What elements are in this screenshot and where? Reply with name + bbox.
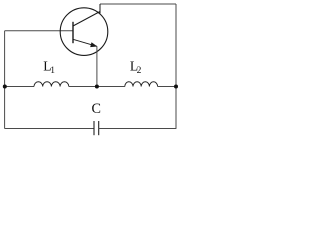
transistor (BJT, NPN) bbox=[60, 4, 108, 55]
junction left node bbox=[3, 85, 7, 89]
wire middle rail center segment bbox=[69, 86, 125, 88]
wire middle rail left segment bbox=[5, 86, 34, 88]
wire right vertical rail bbox=[175, 4, 177, 129]
junction emitter node bbox=[95, 85, 99, 89]
capacitor C bbox=[94, 121, 99, 135]
label C bbox=[92, 101, 101, 117]
label L2 bbox=[130, 59, 142, 76]
svg-text:C: C bbox=[92, 101, 101, 117]
svg-text:2: 2 bbox=[137, 66, 142, 76]
junction right node bbox=[174, 85, 178, 89]
inductor L1 bbox=[34, 82, 69, 87]
wire left vertical rail bbox=[4, 31, 6, 129]
label L1 bbox=[43, 59, 55, 76]
svg-text:1: 1 bbox=[50, 66, 55, 76]
wire middle rail right segment bbox=[158, 86, 176, 88]
wire top horizontal (collector to right rail) bbox=[100, 3, 176, 5]
wire base lead from left rail to transistor base bbox=[5, 30, 73, 32]
wire bottom left segment bbox=[5, 128, 94, 130]
wire bottom right segment bbox=[99, 128, 176, 130]
wire emitter lead down to middle rail bbox=[96, 46, 98, 86]
inductor L2 bbox=[125, 82, 158, 87]
